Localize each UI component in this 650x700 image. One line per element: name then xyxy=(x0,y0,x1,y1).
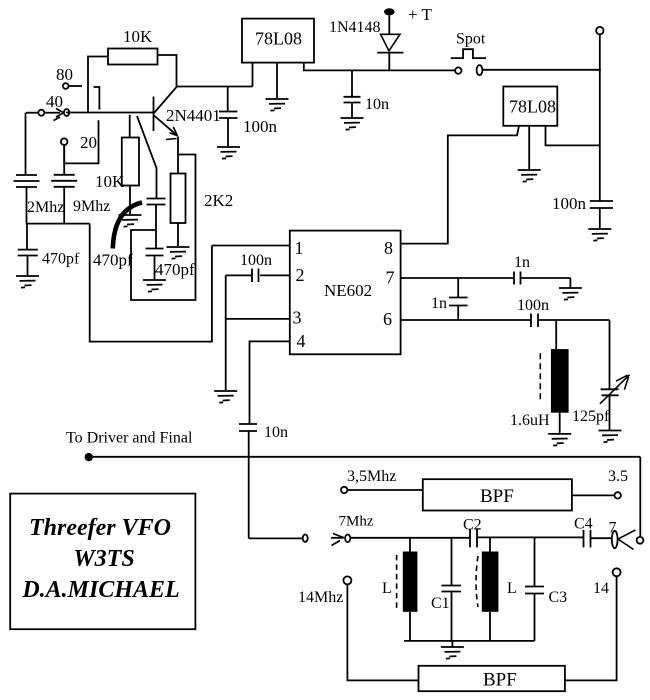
svg-text:2N4401: 2N4401 xyxy=(166,106,221,125)
wire pin6 xyxy=(401,319,531,321)
wire 20 to crystal X2 xyxy=(63,145,65,175)
wire 7Mhz line left xyxy=(350,537,470,539)
diode D1 1N4148 xyxy=(329,5,433,70)
wire pin2 cap to gnd xyxy=(225,275,227,390)
ground tank xyxy=(441,641,464,659)
wire U2 gnd stub xyxy=(276,63,278,98)
svg-text:NE602: NE602 xyxy=(324,281,372,300)
inductor L2 xyxy=(476,537,517,641)
capacitor 10n output xyxy=(239,424,288,538)
svg-text:9Mhz: 9Mhz xyxy=(73,198,110,215)
capacitor 100n rail right xyxy=(552,194,613,228)
wire collector rail xyxy=(177,86,253,88)
wire crystal bottom bus xyxy=(27,187,90,224)
svg-text:14Mhz: 14Mhz xyxy=(298,589,343,606)
ground under 100n xyxy=(217,147,240,159)
wire pin7 xyxy=(401,277,514,279)
node switch pole circle xyxy=(303,535,308,542)
transistor Q1 2N4401 xyxy=(154,87,221,140)
wire pin4 xyxy=(250,341,290,424)
inductor L3 1.6uH xyxy=(510,320,569,433)
ground pin7 cap xyxy=(559,278,582,300)
ground 125pf xyxy=(599,431,622,443)
svg-text:10K: 10K xyxy=(95,172,125,191)
ground under 470pf A xyxy=(16,276,39,288)
title box xyxy=(10,494,195,630)
thick curve annotation xyxy=(113,203,142,249)
svg-text:7Mhz: 7Mhz xyxy=(339,514,374,530)
regulator U3 78L08 xyxy=(503,87,557,126)
capacitor C3 xyxy=(525,537,567,641)
node 14 terminal xyxy=(593,568,621,597)
svg-text:78L08: 78L08 xyxy=(255,29,302,49)
ground under 10n xyxy=(341,118,364,130)
svg-text:C4: C4 xyxy=(574,516,593,533)
wire pin1 xyxy=(212,245,290,247)
svg-text:100n: 100n xyxy=(552,194,587,213)
capacitor 100n collector xyxy=(219,87,278,147)
ground pin3 xyxy=(214,391,237,403)
svg-text:D.A.MICHAEL: D.A.MICHAEL xyxy=(21,577,179,603)
inductor L1 xyxy=(382,537,417,641)
capacitor 100n pin2 xyxy=(226,252,290,282)
wire U2 input to top rail xyxy=(304,63,455,71)
svg-text:Threefer VFO: Threefer VFO xyxy=(29,515,171,541)
svg-text:W3TS: W3TS xyxy=(73,546,134,572)
wire 40 to crystal X1 xyxy=(25,113,27,175)
switch arrow 40 xyxy=(44,109,69,121)
resistor R2 10K base xyxy=(95,115,139,214)
wire 14 to BPF2 right xyxy=(565,576,617,680)
wire BPF1 to 3.5 terminal xyxy=(572,468,628,499)
regulator U2 78L08 xyxy=(242,19,314,63)
ground L3 xyxy=(548,434,571,446)
svg-text:+ T: + T xyxy=(408,5,433,24)
op-amp U1 NE602 xyxy=(290,231,401,355)
filter BPF2 xyxy=(419,666,565,691)
wire R1 right to collector xyxy=(158,55,177,87)
wire to BPF1 xyxy=(347,489,422,491)
capacitor 10n rail xyxy=(344,70,390,117)
switch contact 20 wire xyxy=(64,120,98,163)
crystal X2 9Mhz xyxy=(51,175,110,215)
svg-text:2Mhz: 2Mhz xyxy=(27,199,64,216)
svg-text:To Driver and Final: To Driver and Final xyxy=(66,430,193,447)
wire 14Mhz to BPF2 xyxy=(347,584,418,680)
filter BPF1 xyxy=(423,479,572,510)
svg-text:L: L xyxy=(507,580,517,597)
switch arrow 7Mhz xyxy=(331,514,374,546)
svg-text:C2: C2 xyxy=(463,517,482,534)
wire 7Mhz line mid xyxy=(477,536,584,538)
wire output rail xyxy=(93,456,640,458)
switch Spot xyxy=(451,31,601,76)
svg-text:2: 2 xyxy=(296,265,305,285)
svg-text:20: 20 xyxy=(80,133,97,152)
ground under 470pf C xyxy=(143,280,166,292)
svg-text:1n: 1n xyxy=(514,254,530,271)
ground U2 xyxy=(266,99,289,111)
capacitor 470pf A xyxy=(18,224,80,275)
ground under R2 xyxy=(119,215,142,227)
svg-text:100n: 100n xyxy=(517,297,549,314)
wire tank bottom bus xyxy=(404,640,534,642)
node 80 terminal xyxy=(56,65,82,89)
svg-text:1N4148: 1N4148 xyxy=(329,19,381,36)
svg-text:10n: 10n xyxy=(365,96,389,113)
svg-text:7: 7 xyxy=(609,520,617,537)
node +V terminal top right xyxy=(596,27,603,34)
node 40 terminal xyxy=(26,92,63,116)
node 14Mhz terminal xyxy=(298,576,351,606)
capacitor 125pf variable xyxy=(572,320,630,430)
svg-text:2K2: 2K2 xyxy=(204,191,233,210)
crystal X1 2Mhz xyxy=(14,175,65,216)
svg-text:3.5: 3.5 xyxy=(608,468,628,485)
wire U2 out to collector rail xyxy=(252,63,254,87)
ground under R3 xyxy=(167,247,190,259)
capacitor 100n series pin6 xyxy=(517,297,610,327)
svg-text:125pf: 125pf xyxy=(572,408,610,425)
svg-text:8: 8 xyxy=(384,238,393,258)
capacitor 1n shunt xyxy=(431,278,468,320)
node 3,5Mhz terminal xyxy=(341,468,396,493)
wire U3 input from rail xyxy=(546,126,600,146)
wire emitter feedback loop xyxy=(131,155,196,301)
capacitor C1 xyxy=(431,537,461,641)
resistor R3 2K2 xyxy=(171,155,234,247)
wire pin3 xyxy=(226,318,290,320)
svg-text:C1: C1 xyxy=(431,595,450,612)
capacitor C4 xyxy=(574,516,593,548)
svg-text:3: 3 xyxy=(293,308,302,328)
svg-text:BPF: BPF xyxy=(480,486,514,507)
svg-text:14: 14 xyxy=(593,580,609,597)
wire right rail down to 7 switch xyxy=(639,457,641,537)
resistor R1 10K feedback xyxy=(108,27,158,65)
switch arrow 7 right xyxy=(609,520,644,550)
svg-text:6: 6 xyxy=(383,309,392,329)
svg-text:1: 1 xyxy=(295,238,304,258)
wire emitter down xyxy=(177,137,179,155)
svg-text:7: 7 xyxy=(386,268,395,288)
capacitor 1n series pin7 xyxy=(514,254,570,285)
svg-text:BPF: BPF xyxy=(483,670,517,691)
wire base rail xyxy=(66,112,154,114)
svg-text:78L08: 78L08 xyxy=(509,97,556,117)
wire right rail xyxy=(599,34,601,201)
wire U3 out to NE602 pin8 xyxy=(401,126,519,244)
node 20 terminal xyxy=(61,133,97,152)
svg-text:C3: C3 xyxy=(549,589,568,606)
svg-text:470pf: 470pf xyxy=(93,251,133,270)
switch contact 80 xyxy=(94,87,100,110)
wire base to divider xyxy=(137,116,157,199)
svg-text:100n: 100n xyxy=(240,252,272,269)
svg-text:470pf: 470pf xyxy=(42,251,80,268)
wire to band switch pole xyxy=(249,537,303,539)
wire U3 gnd stub xyxy=(528,126,530,169)
wire R1 left to base rail xyxy=(88,57,108,113)
svg-text:100n: 100n xyxy=(243,117,278,136)
svg-text:40: 40 xyxy=(46,92,63,111)
ground rail right xyxy=(588,229,611,241)
svg-text:L: L xyxy=(382,580,392,597)
svg-text:470pf: 470pf xyxy=(155,260,195,279)
svg-text:1n: 1n xyxy=(431,295,447,312)
svg-text:4: 4 xyxy=(297,331,306,351)
svg-text:Spot: Spot xyxy=(456,31,486,48)
capacitor C2 xyxy=(463,517,482,548)
capacitor 470pf B xyxy=(93,199,166,270)
svg-text:80: 80 xyxy=(56,65,73,84)
svg-text:10n: 10n xyxy=(264,424,288,441)
wire osc output to NE602 xyxy=(90,224,212,342)
node To Driver and Final xyxy=(66,430,193,462)
capacitor 470pf C xyxy=(146,249,196,280)
ground U3 xyxy=(518,170,541,182)
wire C4 to right switch xyxy=(591,537,612,539)
svg-text:1.6uH: 1.6uH xyxy=(510,412,550,429)
svg-text:3,5Mhz: 3,5Mhz xyxy=(347,468,396,485)
svg-text:10K: 10K xyxy=(123,27,153,46)
